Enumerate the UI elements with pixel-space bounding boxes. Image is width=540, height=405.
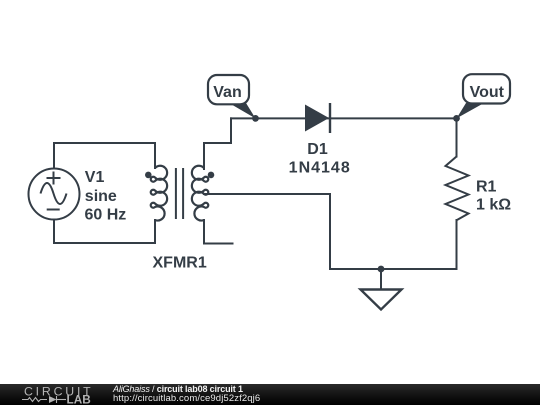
transformer XFMR1 primary coil [151,166,167,221]
transformer core [176,168,183,219]
wire ground stub [380,269,382,290]
phasing dot primary [145,172,152,179]
svg-text:1 kΩ: 1 kΩ [476,196,511,213]
ground [361,290,402,310]
svg-text:LAB: LAB [67,392,91,405]
diode D1 triangle [305,105,329,132]
wire resistor top lead [456,118,458,156]
resistor R1 zigzag [446,157,469,221]
label D1 1N4148 [289,141,351,176]
svg-text:sine: sine [85,188,117,205]
phasing dot secondary [208,172,215,179]
wire bottom ground rail [330,268,457,270]
voltage source V1 [29,169,80,220]
junction dot node Vout [453,115,460,122]
wire top V1-to-XFMR [54,143,155,168]
svg-text:1N4148: 1N4148 [289,159,351,176]
label R1 1 kOhm [476,179,511,214]
svg-text:R1: R1 [476,179,497,196]
wire main top rail y=118 [231,117,457,119]
footer text line 1 [113,385,243,395]
footer bar [0,384,540,405]
label V1 sine 60 Hz [85,169,127,224]
diode D1 cathode bar [329,103,331,133]
wire secondary bottom stub [204,220,233,244]
node flag Vout box [463,74,510,103]
svg-text:Vout: Vout [470,84,505,101]
wire resistor bottom lead [456,220,458,269]
wire V1 top lead [53,143,55,169]
svg-text:Van: Van [213,84,241,101]
footer text line 2 [113,394,260,404]
node flag Van box [208,75,249,104]
wire secondary center tap [204,194,330,269]
CircuitLab logo [20,385,110,405]
svg-text:D1: D1 [307,141,328,158]
svg-text:XFMR1: XFMR1 [153,255,207,272]
junction dot ground rail [378,266,385,273]
wire V1 bottom lead [53,220,55,244]
svg-text:V1: V1 [85,169,105,186]
wire bottom V1-to-XFMR [54,220,155,243]
svg-text:60 Hz: 60 Hz [85,207,127,224]
wire secondary top to node Van [204,118,231,169]
transformer XFMR1 secondary coil [192,166,208,221]
node flag Vout tail [457,103,485,118]
junction dot node Van [252,115,259,122]
node flag Van tail [229,103,256,118]
